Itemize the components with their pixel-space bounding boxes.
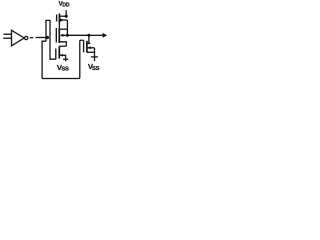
node output dot (66, 34, 69, 37)
output arrowhead (103, 33, 108, 38)
inverter U1 output bubble (25, 36, 28, 39)
svg-text:SS: SS (61, 67, 69, 73)
transistor M1 pmos gate bar (56, 15, 58, 22)
transistor M1 pmos channel bar (58, 14, 60, 23)
wire M1 drain down (58, 23, 60, 30)
wire series link to M3 (59, 45, 66, 47)
transistor M4 channel bar (86, 41, 88, 53)
svg-text:SS: SS (92, 66, 100, 72)
transistor M3 nmos gate bar (55, 49, 57, 60)
transistor M2 source lead (59, 42, 66, 46)
VSS terminal bar left (63, 58, 68, 60)
transistor M3 nmos channel bar (58, 46, 60, 58)
transistor M3 bulk lead (59, 55, 65, 61)
wire right drain drop (88, 35, 90, 43)
transistor M2 arrowhead (60, 34, 64, 37)
transistor M1 bulk arrow lead (59, 19, 67, 21)
wire M1 drain to output node (66, 20, 68, 35)
node VDD dot (65, 15, 68, 18)
input line A (4, 33, 12, 35)
transistor M3 arrowhead (60, 54, 63, 57)
wire output to right (63, 34, 88, 36)
wire output arrow (89, 34, 104, 36)
wire input to gates (36, 37, 47, 39)
transistor M4 arrowhead (87, 46, 90, 49)
svg-text:DD: DD (62, 2, 70, 8)
transistor M1 source lead (59, 15, 66, 17)
wire right gate lead (80, 39, 84, 41)
transistor M2 nmos gate bar (55, 28, 57, 43)
wire jog to bottom loop (42, 40, 80, 78)
transistor M2 drain lead (59, 28, 67, 30)
dash segment after bubble (30, 37, 33, 39)
wire riser above junction (46, 20, 51, 41)
transistor M4 source lead (87, 51, 95, 53)
input line B (3, 37, 11, 39)
transistor M4 gate bar (83, 40, 85, 52)
wire gate line vertical (50, 20, 56, 59)
transistor M4 drain lead (87, 42, 90, 44)
transistor M2 nmos channel bar (58, 28, 60, 43)
wire to VSS right (94, 48, 96, 61)
wire VDD drop (65, 10, 67, 16)
transistor M1 arrowhead (60, 18, 64, 21)
node input junction dot (46, 36, 49, 39)
node right junction dot (87, 34, 90, 37)
VSS terminal bar right (91, 56, 98, 58)
inverter U1 triangle (12, 30, 25, 46)
transistor M4 bulk lead (87, 47, 95, 49)
